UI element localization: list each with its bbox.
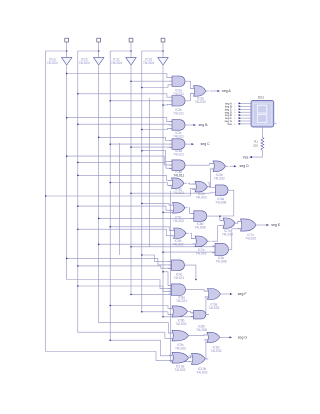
label IC5b 74LS02 xyxy=(196,192,207,200)
svg-text:5: 5 xyxy=(234,115,236,117)
wire bus D non-inverted (x45) xyxy=(46,51,172,361)
or-gate IC5b xyxy=(192,181,211,192)
wire feed AND IC4b in2 xyxy=(66,155,172,165)
wire IC4c out xyxy=(188,265,197,280)
wire vertical run x119.5 xyxy=(119,143,121,255)
wire bus B non-inverted (x110) xyxy=(110,51,131,340)
wire IC5d out to OR IC7a xyxy=(190,233,195,239)
label IC5a 74LS02 xyxy=(173,187,184,195)
svg-text:74LS08: 74LS08 xyxy=(216,259,227,263)
or-gate IC9d (seg G) xyxy=(204,332,223,342)
wire IC7a out up to OR IC7b xyxy=(212,226,224,242)
label IC3b 74LS32 xyxy=(214,173,225,181)
or-gate IC9c xyxy=(169,330,192,341)
node seg D xyxy=(240,164,250,168)
label IC2b 74LS11 xyxy=(173,108,184,116)
node seg G xyxy=(238,336,248,340)
node input-pin J4 xyxy=(161,38,165,42)
svg-text:74LS02: 74LS02 xyxy=(196,195,207,199)
wire IC5c out to AND IC6b xyxy=(189,208,194,214)
wire vertical run x149.4 xyxy=(148,98,150,247)
svg-text:Vss: Vss xyxy=(243,155,249,159)
or-gate IC9a (seg F) xyxy=(205,289,224,300)
label IC1a 74LS04 xyxy=(47,58,58,66)
node seg E xyxy=(271,223,281,227)
wire seg E output xyxy=(259,224,269,226)
wire feed AND IC2a in3 xyxy=(141,85,172,88)
label IC9d 74LS32 xyxy=(211,345,222,353)
wire seg A output xyxy=(210,90,220,92)
label IC1d 74LS04 xyxy=(143,58,154,66)
label IC10b 74LS02 xyxy=(197,367,208,375)
label IC2c 74LS11 xyxy=(173,131,184,139)
svg-text:74LS02: 74LS02 xyxy=(176,322,187,326)
and-gate IC8a (4-input) xyxy=(169,284,189,296)
wire IC8a out to seg F OR xyxy=(189,290,208,291)
wire feed OR IC5c in2b xyxy=(77,205,172,210)
wire feed OR IC5d in2 xyxy=(77,228,173,235)
wire feed node A-bar row212 xyxy=(162,212,172,214)
svg-text:74LS11: 74LS11 xyxy=(174,276,185,280)
and-gate IC2a (seg A term 1) xyxy=(169,76,188,87)
wire IC9b out to AND IC8b xyxy=(191,311,194,312)
wire bus D-bar (x66.7) xyxy=(67,65,172,289)
wire feed AND IC2a in2 xyxy=(130,80,172,82)
label IC1b 74LS04 xyxy=(79,58,90,66)
display pin seg D xyxy=(225,110,251,114)
label IC4b 74LS11 xyxy=(173,170,184,178)
wire feed OR IC7a lower xyxy=(98,243,195,245)
label IC10a 74LS02 xyxy=(175,364,186,372)
and-gate IC4b (seg D term) xyxy=(169,160,188,171)
wire feed AND IC4a in3 xyxy=(130,146,172,148)
wire input B to inverter xyxy=(130,42,132,57)
svg-text:74LS02: 74LS02 xyxy=(173,191,184,195)
label IC9b 74LS02 xyxy=(176,319,187,327)
svg-text:74LS32: 74LS32 xyxy=(245,237,256,241)
wire OR IC5b out to OR IC3b xyxy=(211,169,214,187)
node junction input C xyxy=(98,50,100,52)
wire feed OR IC5a in1 xyxy=(77,175,171,181)
svg-text:74LS08: 74LS08 xyxy=(195,225,206,229)
or-gate IC9b xyxy=(169,306,191,317)
label IC8b 74LS08 xyxy=(196,324,207,332)
wire feed AND IC2b in1 xyxy=(77,93,172,97)
display pin seg B xyxy=(225,104,251,108)
svg-text:1: 1 xyxy=(234,103,236,105)
wire feed OR IC10a upper xyxy=(109,339,172,355)
svg-text:74LS02: 74LS02 xyxy=(175,368,186,372)
wire feed AND IC4a in2 xyxy=(109,143,172,145)
label IC6c 74LS08 xyxy=(216,256,227,264)
node junction input D xyxy=(66,50,68,52)
or-gate IC7c (seg E) xyxy=(238,219,260,231)
label IC7a 74LS02 xyxy=(196,248,207,256)
wire feed OR IC5c in1 xyxy=(141,203,172,206)
wire feed OR IC5a in2 xyxy=(109,182,171,186)
or-gate IC10a xyxy=(169,352,192,363)
wire feed AND IC8a in3 xyxy=(77,285,171,291)
svg-text:74LS11: 74LS11 xyxy=(173,152,184,156)
svg-text:6: 6 xyxy=(234,118,236,120)
wire IC2a out to OR IC3a xyxy=(188,81,194,88)
node seg B xyxy=(199,123,209,127)
label IC6b 74LS08 xyxy=(195,222,206,230)
wire bus B-bar (x131) xyxy=(130,65,132,294)
svg-text:74LS02: 74LS02 xyxy=(175,346,186,350)
wire feed AND IC8a in4 xyxy=(130,294,171,296)
inverter IC1d xyxy=(158,58,168,65)
svg-text:seg C: seg C xyxy=(201,142,211,146)
display pin Vss xyxy=(227,122,251,126)
or-gate IC5d xyxy=(171,228,190,239)
label IC9a 74LS32 xyxy=(208,303,219,311)
wire feed OR IC9b in1 xyxy=(109,305,172,309)
inverter IC1a xyxy=(62,58,72,65)
svg-text:74LS32: 74LS32 xyxy=(214,177,225,181)
or-gate IC5c xyxy=(170,203,189,214)
or-gate IC5a xyxy=(169,178,188,189)
display DS1 label xyxy=(258,96,265,100)
svg-text:74LS02: 74LS02 xyxy=(173,219,184,223)
label IC3a 74LS32 xyxy=(195,96,206,104)
svg-text:7: 7 xyxy=(234,121,236,123)
wire IC10a out to OR IC10b xyxy=(191,356,192,358)
and-gate IC6c xyxy=(212,243,232,255)
svg-text:220: 220 xyxy=(253,143,258,147)
wire feed AND IC6c in2 xyxy=(162,251,215,253)
label R1 220 xyxy=(253,139,258,147)
wire feed AND IC4c in3 xyxy=(77,265,171,268)
and-gate IC2c (seg B) xyxy=(169,120,188,131)
node input-pin J2 xyxy=(97,38,101,42)
wire AND IC6a upper input xyxy=(208,183,213,188)
wire feed AND IC6c in1 xyxy=(130,246,215,248)
or-gate IC10b xyxy=(189,353,209,364)
label IC5d 74LS02 xyxy=(173,239,184,247)
label IC7c 74LS32 xyxy=(245,233,256,241)
display DS1 seven-segment xyxy=(251,101,277,128)
svg-text:74LS11: 74LS11 xyxy=(173,134,184,138)
wire input D to inverter xyxy=(66,42,68,57)
svg-text:seg B: seg B xyxy=(199,123,209,127)
svg-text:seg D: seg D xyxy=(240,164,250,168)
wire feed AND IC6a lower xyxy=(130,192,212,194)
svg-text:74LS21: 74LS21 xyxy=(176,299,187,303)
svg-text:74LS32: 74LS32 xyxy=(195,100,206,104)
wire resistor to Vss xyxy=(252,150,262,157)
wire feed AND IC4b in1 xyxy=(141,150,172,162)
wire feed OR IC5d in1 xyxy=(109,226,173,231)
svg-text:4: 4 xyxy=(234,112,236,114)
wire feed AND IC8b lower xyxy=(162,316,193,318)
label IC5c 74LS02 xyxy=(173,216,184,224)
and-gate IC4c xyxy=(169,260,188,271)
label IC4c 74LS11 xyxy=(174,272,185,280)
wire IC4b out to OR IC3b xyxy=(188,164,213,166)
label IC9c 74LS02 xyxy=(175,343,186,351)
svg-text:seg G: seg G xyxy=(238,336,248,340)
svg-text:Vss: Vss xyxy=(227,122,232,126)
wire feed AND IC4a in1 xyxy=(98,137,172,141)
node junction input A xyxy=(162,50,164,52)
wire bus A-bar (x163) xyxy=(162,65,164,317)
label IC7b 74LS32 xyxy=(222,229,233,237)
wire feed AND IC4c in1 xyxy=(141,254,171,261)
node seg C xyxy=(201,142,211,146)
wire feed AND IC2c in3 xyxy=(141,128,172,130)
wire vertical run x170.4 xyxy=(170,191,191,362)
wire DS1 common to resistor xyxy=(261,127,263,137)
svg-text:seg F: seg F xyxy=(238,292,247,296)
display pin seg C xyxy=(225,107,251,111)
wire IC8b out up to seg F OR xyxy=(206,297,209,315)
wire input C to inverter xyxy=(98,42,100,57)
svg-text:74LS04: 74LS04 xyxy=(79,61,90,65)
wire feed AND IC4c in2 xyxy=(66,258,172,265)
and-gate IC4a (seg C) xyxy=(169,139,188,150)
wire feed AND IC2c in1 xyxy=(66,117,172,122)
svg-text:2: 2 xyxy=(234,106,236,108)
wire seg D output xyxy=(230,165,237,167)
svg-text:74LS08: 74LS08 xyxy=(215,200,226,204)
display pin seg A xyxy=(225,102,251,106)
wire feed AND IC2b in2 xyxy=(109,100,172,102)
wire feed AND IC2c in2 xyxy=(77,123,172,125)
wire bus C-bar (x98.7) xyxy=(99,65,172,333)
svg-text:74LS11: 74LS11 xyxy=(173,111,184,115)
wire feed AND IC8a in1 xyxy=(162,271,171,285)
wire IC6c out up to seg E OR xyxy=(232,229,241,250)
svg-text:seg A: seg A xyxy=(222,89,231,93)
and-gate IC8b xyxy=(191,310,209,319)
svg-text:74LS32: 74LS32 xyxy=(211,349,222,353)
wire input A to inverter xyxy=(162,42,164,57)
node input-pin J1 xyxy=(65,38,69,42)
wire feed AND IC2a in1 xyxy=(66,73,172,78)
svg-text:seg E: seg E xyxy=(271,223,281,227)
ground Vss xyxy=(243,155,252,159)
wire IC7b out to seg E OR xyxy=(238,222,241,224)
node seg A xyxy=(222,89,231,93)
svg-text:74LS08: 74LS08 xyxy=(196,328,207,332)
wire feed OR IC9b in2 xyxy=(141,311,172,314)
resistor R1 xyxy=(261,137,264,150)
or-gate IC3a (seg A) xyxy=(191,86,210,97)
or-gate IC3b (seg D) xyxy=(210,161,229,172)
wire IC2b out to OR IC3a xyxy=(188,93,194,100)
wire seg G output xyxy=(223,336,232,338)
svg-text:74LS02: 74LS02 xyxy=(173,242,184,246)
wire feed AND IC2b in3 xyxy=(162,104,172,106)
wire seg C output xyxy=(188,143,194,145)
wire IC6b out to OR IC7b xyxy=(210,215,223,220)
svg-text:74LS04: 74LS04 xyxy=(111,61,122,65)
wire bus C non-inverted (x78) xyxy=(78,51,172,338)
and-gate IC6b xyxy=(191,211,210,222)
svg-text:74LS04: 74LS04 xyxy=(47,61,58,65)
wire seg B output xyxy=(188,124,196,126)
svg-text:8: 8 xyxy=(234,124,236,126)
wire IC5a out to OR IC5b xyxy=(188,182,195,185)
wire seg F output xyxy=(224,293,233,295)
and-gate IC6a xyxy=(213,185,232,196)
inverter IC1b xyxy=(94,58,104,65)
svg-text:74LS02: 74LS02 xyxy=(197,371,208,375)
inverter IC1c xyxy=(126,58,136,65)
svg-text:3: 3 xyxy=(234,109,236,111)
label IC1c 74LS04 xyxy=(111,58,122,66)
display pin seg F xyxy=(225,116,251,120)
svg-text:74LS04: 74LS04 xyxy=(143,61,154,65)
svg-text:74LS11: 74LS11 xyxy=(173,174,184,178)
and-gate IC2b (seg A term 2) xyxy=(169,96,188,107)
label IC4a 74LS11 xyxy=(173,149,184,157)
node seg F xyxy=(238,292,247,296)
wire feed AND IC4b in3 xyxy=(77,162,172,169)
node input-pin J3 xyxy=(129,38,133,42)
wire feed AND IC6b lower xyxy=(98,218,194,220)
wire IC10b out up to seg G OR xyxy=(206,340,208,359)
svg-text:74LS02: 74LS02 xyxy=(196,252,207,256)
svg-text:DS1: DS1 xyxy=(258,96,265,100)
label IC6a 74LS08 xyxy=(215,197,226,205)
node junction input B xyxy=(130,50,132,52)
wire IC9c out to seg G OR xyxy=(192,334,208,337)
display pin seg E xyxy=(225,113,251,117)
label IC2a 74LS11 xyxy=(173,88,184,96)
display pin seg G xyxy=(225,119,251,123)
or-gate IC7a xyxy=(192,236,211,247)
wire feed OR IC5b lower xyxy=(45,189,195,197)
wire IC6a out down to seg E OR xyxy=(220,190,234,216)
svg-text:74LS32: 74LS32 xyxy=(208,306,219,310)
label IC8a 74LS21 xyxy=(176,296,187,304)
or-gate IC7b xyxy=(220,218,238,228)
wire bus A non-inverted (x142) xyxy=(142,51,163,312)
